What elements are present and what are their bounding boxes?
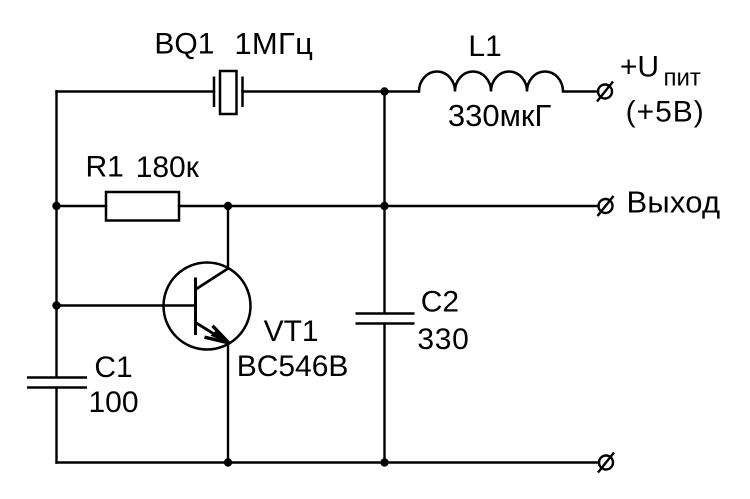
- capacitor C1: [27, 378, 87, 388]
- svg-text:BQ1: BQ1: [154, 27, 214, 60]
- svg-text:BC546B: BC546B: [237, 350, 349, 383]
- inductor L1: [419, 72, 563, 92]
- wire left rail vertical: [55, 92, 57, 378]
- wire top-left horizontal (left rail to crystal): [57, 90, 215, 92]
- wire collector vertical: [227, 206, 229, 269]
- wire R1 right to output terminal: [179, 205, 599, 207]
- node junction left rail / base: [52, 301, 60, 309]
- wire R1 left: [57, 205, 107, 207]
- svg-text:330: 330: [417, 323, 469, 356]
- wire emitter vertical: [227, 343, 229, 463]
- svg-text:Выход: Выход: [627, 185, 721, 220]
- svg-text:+U: +U: [620, 51, 659, 84]
- wire C2 vertical lower: [383, 324, 385, 463]
- svg-text:VT1: VT1: [264, 315, 319, 348]
- svg-text:330мкГ: 330мкГ: [448, 98, 552, 133]
- wire left rail below C1: [55, 388, 57, 463]
- transistor VT1: [164, 263, 251, 350]
- node A junction crystal/L1/C2: [380, 87, 388, 95]
- node junction emitter / bottom rail: [224, 458, 232, 466]
- node junction C2 / bottom rail: [380, 458, 388, 466]
- node junction output wire / C2: [380, 202, 388, 210]
- svg-text:C1: C1: [94, 351, 132, 384]
- svg-text:180к: 180к: [136, 151, 200, 184]
- terminal +U (circle with slash): [597, 82, 613, 102]
- crystal BQ1: [214, 71, 243, 114]
- resistor R1: [106, 192, 179, 221]
- node junction left rail / R1: [52, 202, 60, 210]
- svg-text:R1: R1: [86, 151, 124, 184]
- svg-text:(+5В): (+5В): [626, 96, 705, 129]
- svg-text:L1: L1: [468, 30, 501, 63]
- wire C2 vertical upper: [383, 92, 385, 314]
- wire bottom rail: [57, 461, 600, 463]
- terminal output (circle with slash): [598, 196, 614, 216]
- wire crystal to node A: [243, 90, 385, 92]
- terminal ground (circle with slash): [598, 453, 614, 473]
- svg-text:100: 100: [89, 386, 139, 419]
- capacitor C2: [356, 314, 415, 324]
- wire node A to inductor: [385, 90, 420, 92]
- svg-text:пит: пит: [664, 65, 701, 92]
- svg-text:1МГц: 1МГц: [234, 26, 313, 61]
- wire inductor to +U terminal: [563, 90, 598, 92]
- node junction R1 / collector: [224, 202, 232, 210]
- wire base: [57, 304, 196, 306]
- svg-text:C2: C2: [421, 286, 459, 319]
